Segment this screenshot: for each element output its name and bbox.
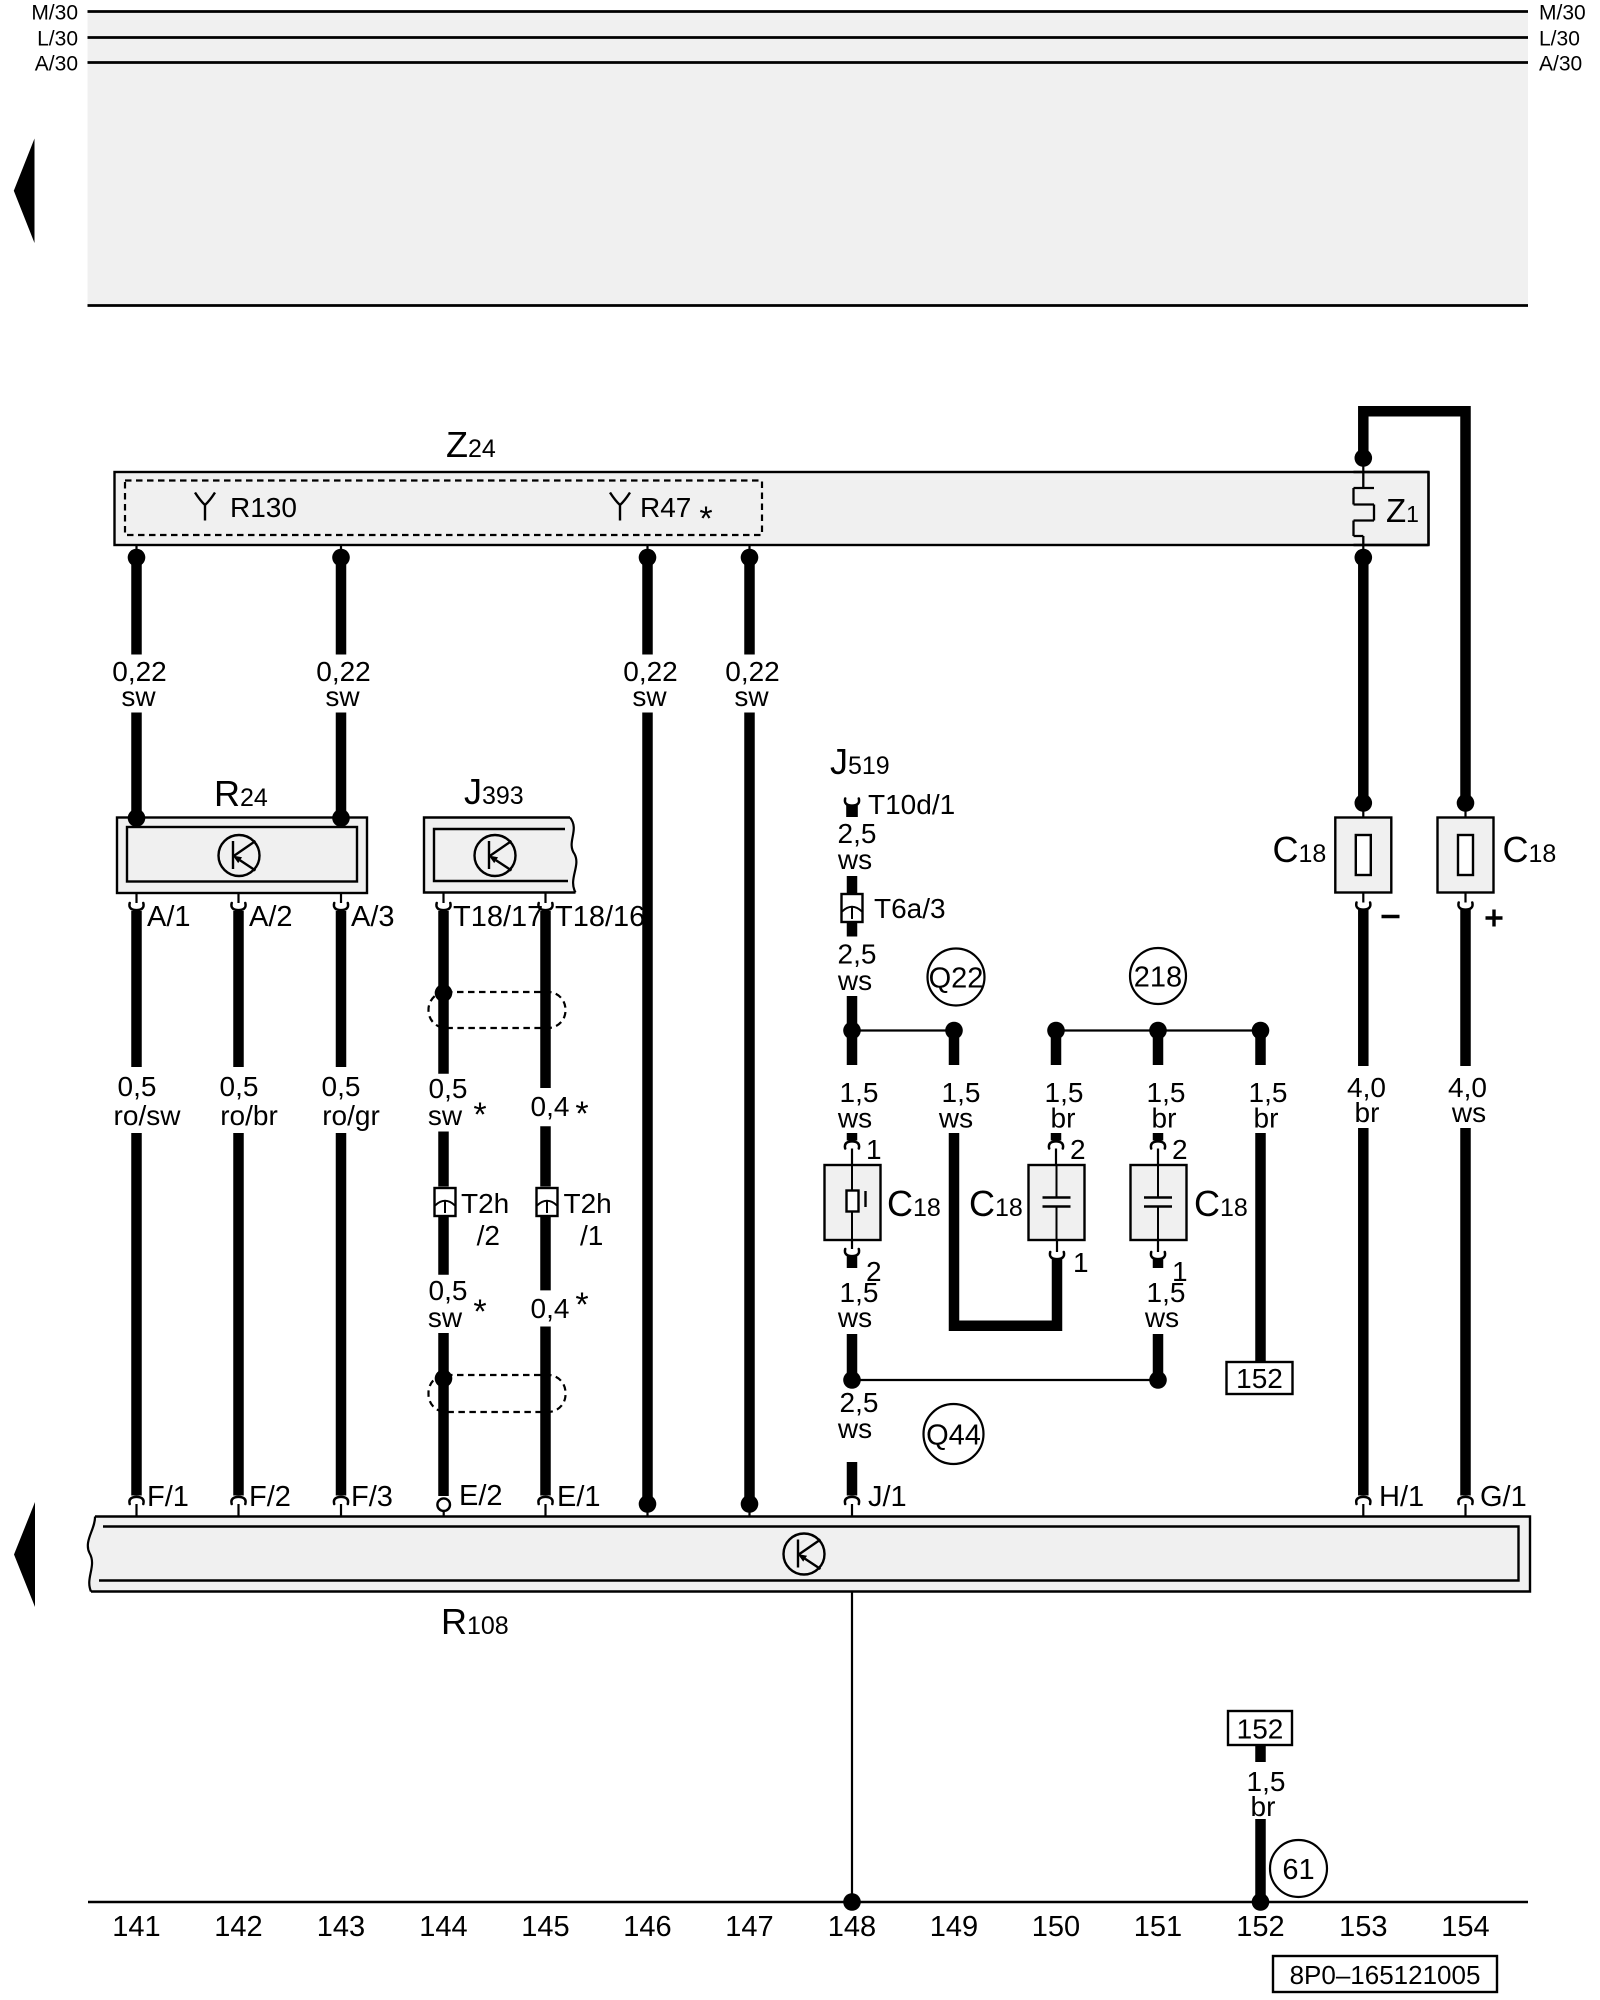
svg-text:br: br: [1152, 1103, 1177, 1134]
svg-text:F/2: F/2: [249, 1481, 291, 1513]
svg-text:A/1: A/1: [147, 901, 191, 933]
svg-text:T10d/1: T10d/1: [868, 789, 955, 820]
svg-text:ws: ws: [1144, 1302, 1179, 1333]
svg-text:E/1: E/1: [557, 1481, 601, 1513]
svg-text:sw: sw: [325, 681, 360, 712]
svg-text:ws: ws: [837, 965, 872, 996]
svg-text:0,4: 0,4: [531, 1293, 570, 1324]
svg-text:F/3: F/3: [351, 1481, 393, 1513]
svg-text:G/1: G/1: [1480, 1481, 1527, 1513]
svg-text:ws: ws: [837, 1413, 872, 1444]
svg-text:148: 148: [828, 1911, 876, 1943]
svg-text:ws: ws: [837, 1302, 872, 1333]
svg-text:br: br: [1051, 1103, 1076, 1134]
svg-text:145: 145: [521, 1911, 569, 1943]
svg-text:T2h: T2h: [461, 1188, 509, 1219]
svg-text:ws: ws: [837, 844, 872, 875]
svg-text:0,5: 0,5: [118, 1071, 157, 1102]
svg-text:61: 61: [1282, 1854, 1314, 1886]
svg-text:L/30: L/30: [37, 28, 78, 51]
svg-text:F/1: F/1: [147, 1481, 189, 1513]
svg-text:sw: sw: [734, 681, 769, 712]
svg-text:M/30: M/30: [1539, 2, 1586, 25]
svg-text:218: 218: [1134, 962, 1182, 994]
svg-text:*: *: [575, 1095, 588, 1133]
svg-text:149: 149: [930, 1911, 978, 1943]
svg-text:146: 146: [623, 1911, 671, 1943]
svg-text:ws: ws: [837, 1103, 872, 1134]
svg-text:152: 152: [1237, 1714, 1284, 1745]
svg-text:E/2: E/2: [459, 1480, 503, 1512]
svg-text:M/30: M/30: [31, 2, 78, 25]
svg-text:151: 151: [1134, 1911, 1182, 1943]
svg-text:141: 141: [112, 1911, 160, 1943]
svg-text:A/30: A/30: [1539, 53, 1582, 76]
svg-text:J/1: J/1: [868, 1481, 907, 1513]
svg-text:br: br: [1254, 1103, 1279, 1134]
svg-text:R47: R47: [640, 492, 691, 523]
svg-text:2: 2: [1172, 1134, 1188, 1165]
svg-text:/2: /2: [477, 1220, 500, 1251]
svg-text:143: 143: [317, 1911, 365, 1943]
svg-text:1: 1: [1073, 1247, 1089, 1278]
svg-text:0,5: 0,5: [322, 1071, 361, 1102]
svg-text:1: 1: [866, 1134, 882, 1165]
svg-text:*: *: [473, 1293, 486, 1331]
svg-text:T2h: T2h: [564, 1188, 612, 1219]
svg-text:A/2: A/2: [249, 901, 293, 933]
svg-text:H/1: H/1: [1379, 1481, 1424, 1513]
svg-text:ro/gr: ro/gr: [322, 1100, 380, 1131]
svg-text:ws: ws: [1451, 1097, 1486, 1128]
svg-text:0,4: 0,4: [531, 1091, 570, 1122]
svg-text:sw: sw: [428, 1100, 463, 1131]
svg-text:152: 152: [1236, 1363, 1283, 1394]
svg-text:8P0–165121005: 8P0–165121005: [1290, 1960, 1481, 1990]
svg-text:Q44: Q44: [926, 1420, 981, 1452]
svg-text:A/30: A/30: [35, 53, 78, 76]
svg-text:sw: sw: [632, 681, 667, 712]
svg-text:R130: R130: [230, 492, 297, 523]
svg-text:ws: ws: [938, 1103, 973, 1134]
svg-text:T6a/3: T6a/3: [874, 893, 946, 924]
svg-text:152: 152: [1236, 1911, 1284, 1943]
svg-text:153: 153: [1339, 1911, 1387, 1943]
svg-text:L/30: L/30: [1539, 28, 1580, 51]
svg-text:T18/17: T18/17: [453, 901, 543, 933]
svg-text:2: 2: [1070, 1134, 1086, 1165]
svg-text:147: 147: [725, 1911, 773, 1943]
svg-text:0,5: 0,5: [220, 1071, 259, 1102]
svg-text:/1: /1: [580, 1220, 603, 1251]
svg-text:br: br: [1355, 1097, 1380, 1128]
svg-text:sw: sw: [121, 681, 156, 712]
svg-text:ro/sw: ro/sw: [114, 1100, 182, 1131]
svg-text:*: *: [473, 1096, 486, 1134]
svg-text:144: 144: [419, 1911, 467, 1943]
svg-text:150: 150: [1032, 1911, 1080, 1943]
svg-text:T18/16: T18/16: [555, 901, 645, 933]
svg-text:ro/br: ro/br: [220, 1100, 278, 1131]
svg-text:Q22: Q22: [929, 963, 984, 995]
svg-text:A/3: A/3: [351, 901, 395, 933]
svg-text:*: *: [699, 500, 712, 538]
svg-text:sw: sw: [428, 1302, 463, 1333]
svg-text:*: *: [575, 1286, 588, 1324]
svg-text:154: 154: [1441, 1911, 1489, 1943]
svg-text:142: 142: [214, 1911, 262, 1943]
svg-text:br: br: [1251, 1791, 1276, 1822]
